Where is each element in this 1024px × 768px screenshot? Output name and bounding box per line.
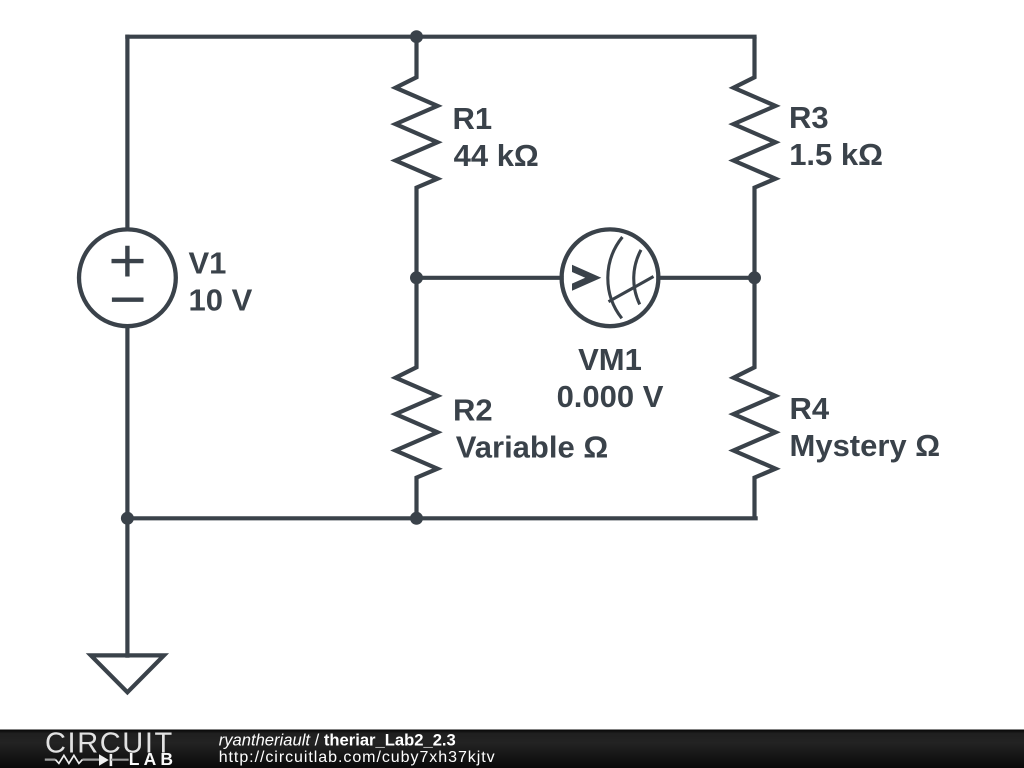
svg-text:ryantheriault / theriar_Lab2_2: ryantheriault / theriar_Lab2_2.3 (219, 730, 456, 749)
svg-text:44 kΩ: 44 kΩ (454, 138, 539, 173)
wire: bottom rail horizontal (127, 516, 755, 520)
logo resistor squiggle (45, 758, 99, 760)
svg-text:R4: R4 (790, 391, 830, 426)
node B: bridge right junction (748, 271, 761, 284)
svg-text:V1: V1 (189, 246, 227, 281)
svg-text:LAB: LAB (129, 749, 178, 768)
svg-text:Mystery Ω: Mystery Ω (790, 428, 941, 463)
resistor R2 (396, 278, 438, 519)
svg-text:0.000 V: 0.000 V (557, 379, 664, 414)
wire: bridge right (VM1 to node B) (658, 276, 754, 280)
node: top junction (410, 30, 423, 43)
resistor R4 (734, 278, 776, 519)
svg-text:1.5 kΩ: 1.5 kΩ (789, 137, 883, 172)
resistor R3 (734, 37, 776, 278)
logo wire to LAB (111, 759, 129, 761)
wire: bridge left (node A to VM1) (417, 276, 562, 280)
voltmeter VM1 (562, 229, 659, 326)
voltage source V1 (79, 229, 176, 326)
wire: left rail vertical (top corner to V1 top) (125, 37, 129, 230)
node A: bridge left junction (410, 271, 423, 284)
wire: left rail vertical (V1 bottom to bottom rail) (125, 326, 129, 518)
svg-text:10 V: 10 V (189, 283, 253, 318)
svg-text:R2: R2 (453, 393, 493, 428)
logo diode (99, 754, 109, 765)
svg-text:Variable Ω: Variable Ω (456, 429, 608, 464)
svg-text:VM1: VM1 (578, 342, 642, 377)
wire: ground stem (125, 518, 129, 655)
wire: top rail horizontal (127, 35, 754, 39)
svg-text:R1: R1 (453, 101, 493, 136)
svg-text:http://circuitlab.com/cuby7xh3: http://circuitlab.com/cuby7xh37kjtv (219, 749, 496, 766)
resistor R1 (396, 37, 438, 278)
ground (91, 655, 164, 692)
svg-text:R3: R3 (789, 100, 829, 135)
node: bottom left junction (121, 512, 134, 525)
node: bottom middle junction (410, 512, 423, 525)
footer bar (0, 730, 1024, 768)
